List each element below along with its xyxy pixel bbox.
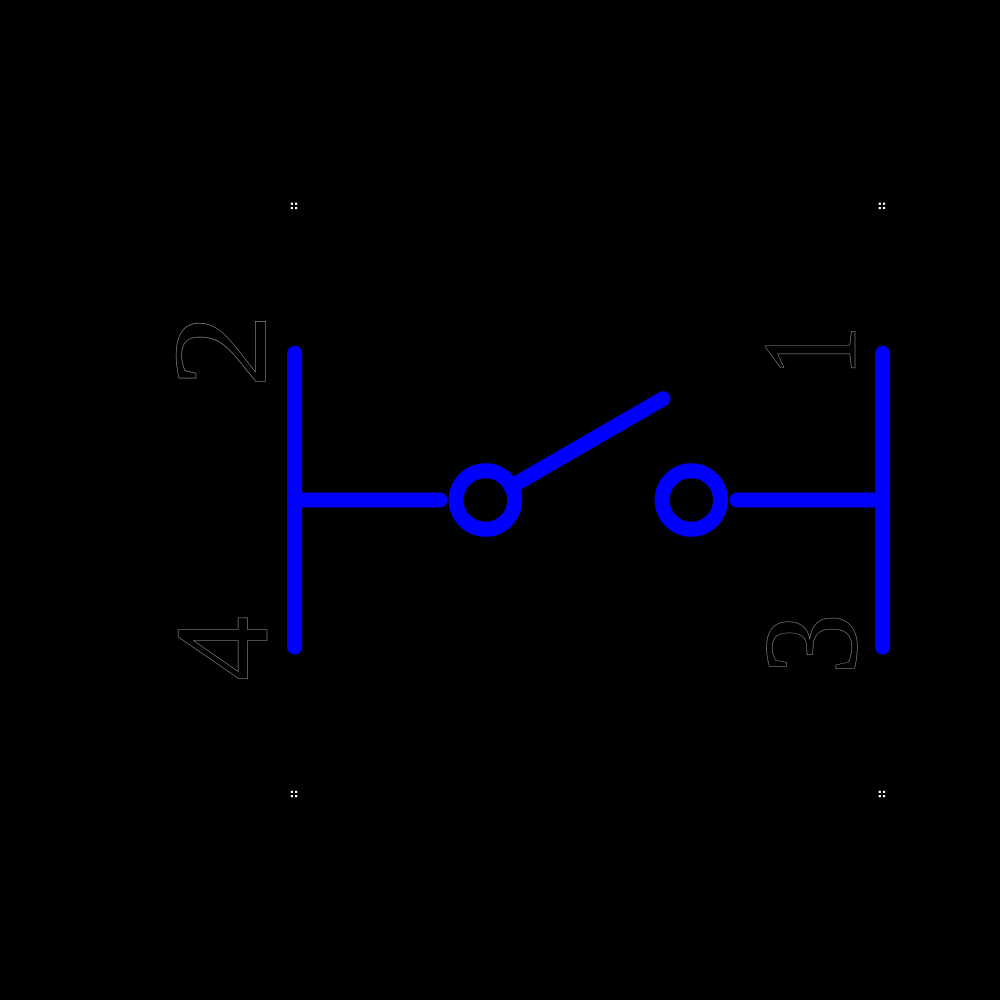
contact circle left: [456, 471, 515, 530]
wire right horizontal: [737, 493, 883, 508]
svg-text:4: 4: [148, 616, 297, 681]
svg-text:2: 2: [147, 313, 296, 388]
grid dot cluster bottom-right: [879, 791, 885, 797]
pin 2/4 left vertical bar: [287, 353, 302, 647]
grid dot cluster top-left: [291, 203, 297, 209]
wire left horizontal: [295, 493, 440, 508]
svg-text:1: 1: [736, 325, 885, 377]
svg-text:3: 3: [737, 613, 886, 675]
switch SW1 pushbutton symbol: [295, 353, 883, 647]
contact circle right: [662, 471, 720, 529]
switch lever: [511, 399, 663, 487]
grid dot cluster bottom-left: [291, 791, 297, 797]
pin 1/3 right vertical bar: [875, 353, 890, 647]
grid dot cluster top-right: [879, 203, 885, 209]
